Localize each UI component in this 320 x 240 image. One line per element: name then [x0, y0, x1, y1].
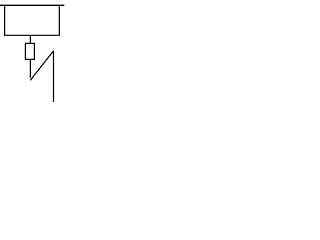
wire	[29, 59, 31, 77]
wire	[53, 51, 55, 102]
component box U1	[5, 5, 60, 35]
switch S1 blade	[30, 51, 53, 81]
resistor R1	[25, 43, 34, 59]
wire	[0, 4, 64, 6]
wire	[29, 35, 31, 43]
